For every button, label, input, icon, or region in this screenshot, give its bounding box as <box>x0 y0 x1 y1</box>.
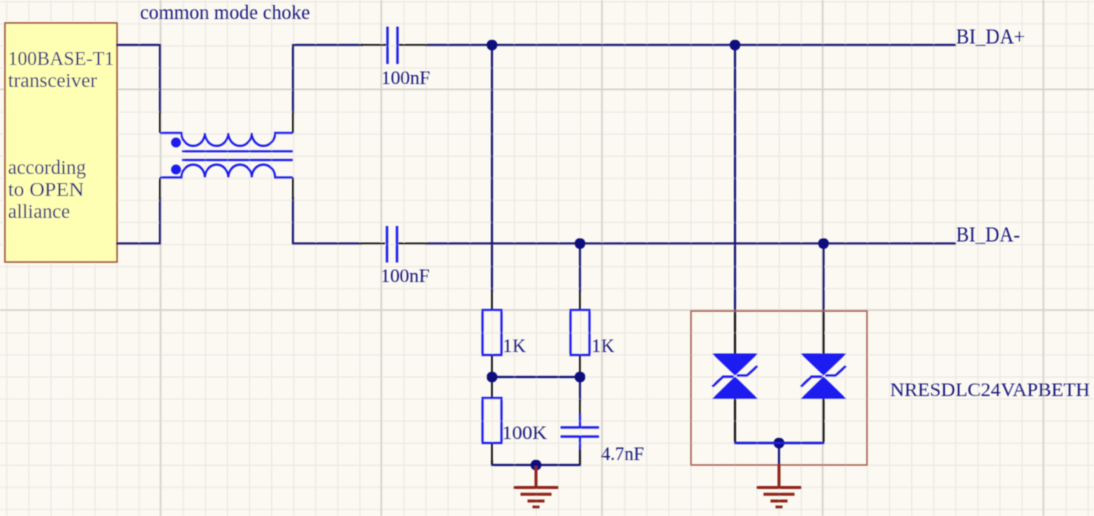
junction dot TVS ground node <box>774 438 785 449</box>
choke L1 core lines <box>182 150 293 152</box>
wire net BI_DA+ <box>425 44 956 46</box>
capacitor C3 blue pin stubs <box>579 414 581 449</box>
resistor R2 pin bottom <box>579 355 581 374</box>
junction dot R1 / R3 <box>487 372 498 383</box>
TVS component body box <box>691 311 867 465</box>
choke L1 pin 3 <box>292 112 294 133</box>
wire from transceiver top to choke <box>116 45 160 114</box>
resistor R1 pin top <box>491 292 493 310</box>
junction dot BI_DA- / R2 <box>575 238 586 249</box>
wire R2 to C3 <box>579 373 581 401</box>
wire from choke bottom-right to C2 <box>293 197 362 244</box>
wire TVS common to ground <box>778 443 780 466</box>
TVS diode D1 pin bottom <box>734 399 736 442</box>
TVS diode D2 bottom triangle <box>801 377 847 400</box>
common mode choke L1 winding 2 <box>160 165 293 178</box>
svg-text:1K: 1K <box>503 336 527 357</box>
TVS diode D1 bars <box>712 366 757 387</box>
svg-text:according: according <box>8 157 86 179</box>
TVS diode D1 pin top <box>734 313 736 354</box>
svg-text:alliance: alliance <box>8 201 70 223</box>
svg-text:100nF: 100nF <box>381 266 430 287</box>
capacitor C1 plates <box>386 27 388 64</box>
TVS diode D1 bottom triangle <box>712 377 758 400</box>
svg-text:1K: 1K <box>592 336 616 357</box>
wire vertical BI_DA+ to R1 <box>491 45 493 292</box>
capacitor C2 pin 2 <box>399 243 429 245</box>
capacitor C1 pin 1 <box>360 44 386 46</box>
TVS diode D2 top triangle <box>801 354 847 376</box>
svg-text:BI_DA+: BI_DA+ <box>956 25 1025 49</box>
junction dot BI_DA+ / D1 <box>730 40 741 51</box>
choke L1 polarity dot 2 <box>171 165 181 175</box>
TVS diode D1 top triangle <box>712 354 758 376</box>
wire from choke top-right to C1 <box>293 45 363 114</box>
svg-text:100K: 100K <box>502 423 548 444</box>
resistor R3 pin top <box>491 379 493 398</box>
svg-text:100BASE-T1: 100BASE-T1 <box>8 48 114 70</box>
choke L1 pin 1 <box>159 112 161 133</box>
resistor R2 pin top <box>579 292 581 310</box>
TVS bottom connecting line <box>734 442 825 444</box>
junction dot BI_DA+ / R1 <box>487 40 498 51</box>
svg-text:4.7nF: 4.7nF <box>601 444 644 465</box>
capacitor C3 pin top <box>579 400 581 415</box>
block U1 100BASE-T1 transceiver <box>5 23 117 262</box>
choke L1 polarity dot 1 <box>171 138 181 148</box>
svg-text:to OPEN: to OPEN <box>8 179 84 201</box>
svg-text:NRESDLC24VAPBETH: NRESDLC24VAPBETH <box>890 380 1090 401</box>
ground GND1 <box>514 466 559 507</box>
choke L1 pin 4 <box>292 178 294 200</box>
capacitor C3 plates <box>561 426 600 428</box>
resistor R1 pin bottom <box>491 355 493 374</box>
resistor R3 pin bottom <box>491 443 493 464</box>
capacitor C2 plates <box>386 226 388 263</box>
wire vertical BI_DA- to D2 <box>822 244 824 314</box>
wire net BI_DA- <box>425 242 956 244</box>
common mode choke L1 winding 1 <box>160 133 293 146</box>
capacitor C3 pin bottom <box>579 448 581 464</box>
svg-text:BI_DA-: BI_DA- <box>956 223 1020 247</box>
svg-text:100nF: 100nF <box>381 68 430 89</box>
wire R1 to R2 junction row <box>492 376 580 378</box>
wire vertical BI_DA+ to D1 <box>734 45 736 313</box>
wire vertical BI_DA- to R2 <box>579 244 581 293</box>
junction dot bottom ground node <box>531 460 542 471</box>
svg-text:transceiver: transceiver <box>8 70 97 92</box>
svg-text:common mode choke: common mode choke <box>140 2 310 24</box>
wire bottom row R3/C3 to ground <box>492 450 580 465</box>
TVS diode D2 pin bottom <box>822 399 824 442</box>
capacitor C2 pin 1 <box>360 243 385 245</box>
TVS diode D2 pin top <box>822 313 824 354</box>
wire from transceiver bottom to choke <box>116 197 160 244</box>
junction dot BI_DA- / D2 <box>818 238 829 249</box>
junction dot R2 / C3 <box>575 372 586 383</box>
resistor R3 body <box>483 398 502 443</box>
choke L1 pin 2 <box>159 178 161 200</box>
ground GND2 <box>757 464 802 507</box>
resistor R1 body <box>483 310 502 355</box>
resistor R2 body <box>571 310 590 355</box>
TVS diode D2 bars <box>801 366 846 387</box>
capacitor C1 pin 2 <box>399 44 428 46</box>
